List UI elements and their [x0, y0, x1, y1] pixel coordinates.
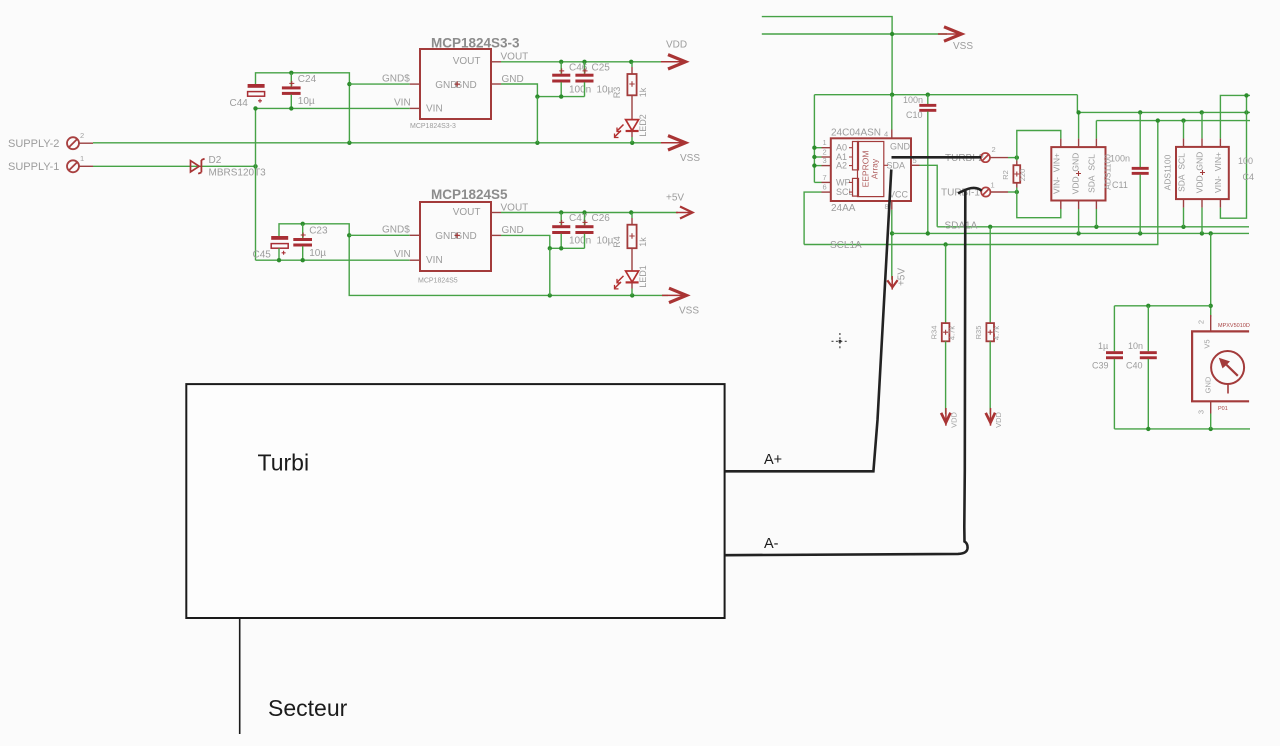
svg-text:GND: GND	[502, 225, 524, 236]
capacitor C26	[575, 213, 613, 249]
resistor R35 pullup	[974, 227, 1001, 414]
power arrow VSS upper	[661, 136, 700, 164]
svg-text:10µ: 10µ	[298, 96, 315, 107]
wire black TURBI-1 squiggle	[958, 188, 982, 193]
svg-text:1: 1	[991, 181, 995, 190]
EEPROM inner array box	[858, 142, 884, 197]
resistor R34 pullup	[930, 245, 957, 415]
power arrow VSS right	[938, 27, 973, 52]
wire ADS2 SDA bottom	[1183, 199, 1185, 208]
capacitor C39	[1092, 306, 1123, 429]
svg-text:SUPPLY-1: SUPPLY-1	[8, 161, 59, 173]
capacitor C47	[552, 213, 591, 249]
svg-text:V5: V5	[1203, 339, 1212, 348]
svg-text:C45: C45	[253, 250, 272, 261]
LED LED1	[615, 265, 649, 295]
capacitor C24	[282, 73, 317, 109]
wire pin3 to ground rail	[1210, 414, 1212, 429]
block Turbi	[186, 384, 724, 618]
pin GND right stub	[491, 83, 501, 85]
svg-text:MCP1824S5: MCP1824S5	[431, 187, 508, 202]
wire R4 to LED1	[631, 248, 633, 271]
pin A2	[822, 165, 831, 167]
pin A1	[822, 156, 831, 158]
svg-text:C26: C26	[592, 213, 611, 224]
wire +5V feed down to sensor	[1210, 233, 1212, 317]
pin SDA right	[911, 164, 920, 166]
capacitor C40	[1126, 306, 1157, 429]
svg-text:1: 1	[80, 154, 84, 163]
power arrow +5V	[666, 193, 693, 219]
wire EEPROM GND up	[891, 95, 893, 130]
svg-text:VSS: VSS	[953, 41, 973, 52]
IC2 MCP1824S5 regulator	[410, 187, 508, 285]
wire GND$ to IC2	[349, 234, 410, 236]
wire VDD output net	[501, 61, 668, 63]
svg-text:100n: 100n	[569, 236, 591, 247]
svg-text:D2: D2	[209, 155, 222, 166]
wire cap top rail lower	[279, 224, 349, 236]
wire ADS2 VDD top	[1201, 112, 1203, 138]
svg-text:GND$: GND$	[382, 74, 410, 85]
wire horizontal H1	[814, 94, 1077, 96]
IC U2 EEPROM 24C04ASN	[822, 128, 920, 214]
svg-text:VDD: VDD	[950, 412, 959, 428]
terminal TURBI-2	[945, 145, 1008, 164]
wire loop TURBI-1 to ADS1 VIN bottom	[1017, 192, 1061, 218]
power arrow VSS lower	[662, 288, 699, 316]
svg-text:VIN- VIN+: VIN- VIN+	[1052, 153, 1062, 194]
svg-text:A2: A2	[836, 161, 847, 171]
svg-text:C10: C10	[906, 110, 923, 120]
svg-text:SDA: SDA	[886, 160, 905, 170]
pin GND left stub IC2	[410, 234, 420, 236]
svg-text:VOUT: VOUT	[453, 56, 481, 67]
pin GND left stub	[410, 83, 420, 85]
power arrow VDD	[661, 40, 687, 70]
svg-text:2: 2	[80, 131, 84, 140]
svg-text:1k: 1k	[638, 87, 648, 97]
svg-text:R2: R2	[1001, 170, 1010, 180]
svg-text:LED1: LED1	[638, 265, 648, 288]
svg-text:VSS: VSS	[679, 306, 699, 317]
svg-text:1k: 1k	[638, 237, 648, 247]
svg-text:24C04ASN: 24C04ASN	[831, 128, 881, 139]
cursor crosshair	[832, 333, 849, 350]
power arrow +5V down	[887, 268, 907, 290]
power arrow VDD down (R35)	[986, 408, 1003, 428]
wire black A-	[725, 191, 968, 555]
svg-text:7: 7	[823, 173, 827, 182]
svg-text:VOUT: VOUT	[501, 52, 529, 63]
svg-text:24AA: 24AA	[831, 203, 856, 214]
wire cap top rail upper	[256, 73, 350, 84]
svg-text:100: 100	[1238, 156, 1253, 166]
op-amp U1 MCP1824S3-3 regulator	[410, 36, 520, 131]
IC U4 ADS1100 #2	[1163, 147, 1229, 199]
svg-text:2: 2	[992, 145, 996, 154]
svg-text:MBRS120T3: MBRS120T3	[209, 168, 267, 179]
svg-text:VIN: VIN	[426, 255, 443, 266]
wire GND$ vertical x=349.4 down to VSS	[348, 84, 350, 143]
capacitor C45	[253, 236, 289, 261]
svg-text:R35: R35	[974, 326, 983, 340]
svg-text:1µ: 1µ	[1098, 341, 1108, 351]
svg-text:100n: 100n	[903, 95, 923, 105]
svg-text:4.7k: 4.7k	[992, 326, 1001, 340]
svg-text:220: 220	[1018, 169, 1027, 182]
svg-text:SDA1A: SDA1A	[945, 221, 978, 232]
svg-text:VDD: VDD	[666, 40, 687, 51]
svg-text:SCL1A: SCL1A	[830, 240, 862, 251]
wire black A+	[725, 170, 892, 472]
svg-text:A+: A+	[764, 452, 782, 468]
wire vertical input column x=255.5	[255, 108, 257, 260]
pin 3 stub	[1210, 401, 1212, 413]
terminal TURBI-1	[941, 181, 1008, 199]
svg-text:2: 2	[1197, 320, 1206, 324]
resistor R2	[1001, 158, 1027, 192]
svg-text:GND: GND	[890, 142, 911, 152]
wire EEPROM address column	[813, 95, 815, 183]
wire VIN rail lower	[256, 259, 410, 261]
wire SUPPLY-1 to diode	[93, 165, 256, 167]
wire sensor top rail	[1114, 305, 1210, 307]
svg-text:MCP1824S3-3: MCP1824S3-3	[410, 123, 456, 130]
pin VIN stub IC2	[410, 259, 420, 261]
svg-text:Array: Array	[870, 158, 880, 179]
capacitor C23	[293, 224, 328, 260]
wire GND$ to IC	[349, 83, 409, 85]
svg-text:A-: A-	[764, 536, 779, 552]
svg-text:R34: R34	[930, 326, 939, 340]
svg-text:VDD: VDD	[994, 412, 1003, 428]
svg-text:VOUT: VOUT	[501, 203, 529, 214]
pin 2 stub	[1210, 315, 1212, 331]
wire ADS2 SCL top	[1183, 121, 1185, 139]
terminal SUPPLY-2	[8, 131, 93, 150]
wire GND net lower right	[501, 235, 585, 248]
pin VCC bottom	[891, 201, 893, 210]
svg-text:10n: 10n	[1128, 341, 1143, 351]
pin A0	[822, 147, 831, 149]
wire VIN rail upper (caps bottom to IC)	[256, 107, 410, 109]
IC U3 ADS1100 #1	[1051, 147, 1112, 200]
svg-text:3: 3	[823, 156, 827, 165]
wire +5V output net	[501, 212, 678, 214]
svg-text:SDA SCL: SDA SCL	[1177, 153, 1187, 192]
svg-text:6: 6	[823, 183, 827, 192]
svg-text:VIN: VIN	[394, 98, 411, 109]
svg-text:C25: C25	[592, 63, 611, 74]
svg-text:GND: GND	[455, 231, 477, 242]
power arrow VDD down (R34)	[941, 408, 958, 428]
wire GND down to VSS	[536, 97, 538, 143]
svg-text:VSS: VSS	[680, 153, 700, 164]
svg-text:VCC: VCC	[889, 190, 909, 200]
svg-text:C39: C39	[1092, 361, 1109, 371]
svg-text:R3: R3	[612, 87, 622, 99]
wire ADS2 GND bottom	[1201, 199, 1203, 208]
svg-text:GND: GND	[455, 80, 477, 91]
pin VOUT stub IC2	[491, 212, 501, 214]
diode D2	[191, 155, 267, 179]
svg-text:100n: 100n	[569, 85, 591, 96]
wire VDD bus (wire1)	[1077, 95, 1250, 113]
wire VSS rail upper	[93, 142, 668, 144]
wire EEPROM VCC down to +5V rail and arrow	[891, 210, 893, 280]
svg-text:VIN- VIN+: VIN- VIN+	[1213, 152, 1223, 193]
wire top net A	[762, 17, 892, 95]
pin GND right stub IC2	[491, 234, 501, 236]
wire SCL bus (wire2)	[1096, 120, 1250, 122]
node diode/C44 junction	[253, 164, 257, 168]
svg-text:P01: P01	[1218, 406, 1228, 412]
wire TURBI-2 to R2 top node	[1008, 157, 1017, 159]
wire EEPROM SDA to SDA1A rail	[920, 165, 938, 227]
pin VOUT stub	[491, 61, 501, 63]
svg-text:Turbi: Turbi	[258, 450, 310, 476]
capacitor C25	[575, 62, 613, 97]
terminal SUPPLY-1	[8, 154, 93, 173]
svg-text:C44: C44	[230, 98, 249, 109]
svg-text:MCP1824S5: MCP1824S5	[418, 278, 458, 285]
wire ADS1 SCL top	[1095, 121, 1097, 139]
svg-text:C4: C4	[1243, 172, 1255, 182]
capacitor C46	[552, 62, 591, 97]
wire ADS1 SDA bottom	[1095, 201, 1097, 210]
node VSS2 junctions	[548, 293, 552, 297]
svg-text:10µ: 10µ	[309, 248, 326, 259]
svg-text:VIN: VIN	[426, 103, 443, 114]
svg-text:VIN: VIN	[394, 249, 411, 260]
svg-text:WP: WP	[836, 177, 851, 187]
resistor R4	[612, 213, 648, 249]
svg-text:C23: C23	[309, 226, 328, 237]
wire GND net upper right	[501, 84, 585, 97]
svg-text:+5V: +5V	[666, 193, 684, 204]
svg-text:GND: GND	[1204, 376, 1213, 393]
svg-text:C24: C24	[298, 74, 317, 85]
svg-text:100n: 100n	[1110, 154, 1130, 164]
wire ADS1 VDD top	[1078, 112, 1080, 138]
pin GND top	[891, 130, 893, 139]
svg-text:Secteur: Secteur	[268, 695, 348, 721]
resistor R3	[612, 62, 648, 98]
wire TURBI-1 to R2 bottom node	[1008, 191, 1017, 193]
svg-text:ADS1100: ADS1100	[1163, 154, 1173, 190]
wire ADS2 VIN bracket top	[1219, 138, 1221, 147]
wire ADS1 GND bottom	[1078, 201, 1080, 210]
wire sensor bottom rail	[1114, 428, 1250, 430]
svg-text:+5V: +5V	[897, 268, 908, 286]
wire R3 to LED2	[631, 95, 633, 119]
svg-text:LED2: LED2	[638, 114, 648, 137]
svg-text:VOUT: VOUT	[453, 207, 481, 218]
transducer V5 MPXV5010	[1192, 315, 1250, 414]
svg-text:3: 3	[1197, 410, 1206, 414]
pin WP	[822, 181, 831, 183]
svg-text:C11: C11	[1112, 180, 1128, 190]
svg-text:R4: R4	[612, 236, 622, 248]
capacitor C11	[1110, 112, 1149, 233]
wire Secteur line	[239, 618, 241, 734]
svg-text:GND: GND	[502, 74, 524, 85]
wire top net B to VSS	[762, 33, 947, 35]
pin SCL	[822, 191, 831, 193]
LED LED2	[615, 114, 649, 143]
wire +5V rail	[892, 232, 1249, 234]
wire ADS2 VIN bracket right	[1220, 95, 1246, 218]
wire black TURBI-2 link	[892, 156, 982, 159]
capacitor C44	[230, 84, 265, 109]
wire GND down to VSS2	[549, 248, 551, 295]
wire GND$ lower junction down to VSS2	[349, 235, 668, 295]
pin VIN stub	[410, 107, 420, 109]
svg-text:GND$: GND$	[382, 225, 410, 236]
capacitor C10	[903, 95, 936, 234]
svg-text:4: 4	[884, 130, 888, 139]
svg-text:1: 1	[823, 138, 827, 147]
wire loop TURBI-2 to ADS1 VIN top	[1017, 131, 1061, 158]
svg-text:4.7k: 4.7k	[948, 326, 957, 340]
svg-text:SDA SCL: SDA SCL	[1087, 154, 1097, 193]
svg-text:C40: C40	[1126, 361, 1143, 371]
svg-text:SUPPLY-2: SUPPLY-2	[8, 138, 59, 150]
node VSS junctions on rail	[347, 141, 351, 145]
wire SDA1A rail	[937, 226, 1249, 228]
wire SCL1A rail	[804, 121, 1158, 245]
svg-text:MPXV5010D: MPXV5010D	[1218, 323, 1250, 329]
wire EEPROM SCL to SCL1A rail	[804, 192, 821, 244]
